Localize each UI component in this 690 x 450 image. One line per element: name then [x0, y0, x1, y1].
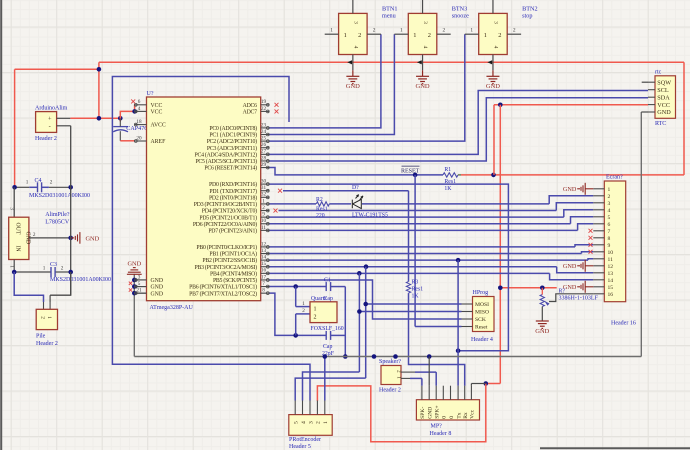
svg-text:Rx: Rx [463, 412, 469, 419]
svg-text:23: 23 [261, 122, 267, 128]
svg-text:32: 32 [261, 192, 267, 198]
svg-text:1: 1 [314, 307, 317, 313]
svg-text:9: 9 [262, 212, 265, 218]
svg-text:Header 5: Header 5 [289, 444, 311, 450]
svg-text:2: 2 [316, 421, 322, 424]
svg-text:PB7 (PCINT7/XTAL2/TOSC2): PB7 (PCINT7/XTAL2/TOSC2) [189, 290, 257, 297]
svg-text:2: 2 [61, 265, 64, 271]
svg-text:6: 6 [138, 99, 141, 105]
svg-text:GND: GND [127, 261, 141, 268]
svg-text:4: 4 [492, 46, 498, 49]
svg-text:PB2 (PCINT2/SS/OC1B): PB2 (PCINT2/SS/OC1B) [202, 257, 257, 264]
svg-text:1: 1 [413, 32, 416, 39]
svg-text:AVCC: AVCC [151, 123, 166, 129]
svg-text:Vcc: Vcc [470, 409, 476, 419]
svg-text:RESET: RESET [401, 168, 420, 174]
svg-text:VCC: VCC [151, 103, 163, 109]
svg-text:PD6 (PCINT22/OC0A/AIN0): PD6 (PCINT22/OC0A/AIN0) [193, 221, 257, 228]
svg-text:D?: D? [352, 185, 359, 191]
svg-text:2: 2 [428, 32, 431, 39]
svg-text:4: 4 [138, 106, 141, 112]
svg-text:L7805CV: L7805CV [45, 219, 70, 225]
svg-text:16: 16 [261, 268, 267, 274]
svg-text:2: 2 [358, 32, 361, 39]
svg-text:AREF: AREF [151, 139, 167, 145]
svg-text:rtc: rtc [655, 69, 662, 75]
svg-text:1: 1 [46, 316, 52, 319]
svg-text:SQW: SQW [657, 79, 671, 86]
svg-text:2: 2 [442, 27, 445, 33]
svg-text:1: 1 [608, 187, 611, 193]
svg-text:1: 1 [262, 198, 265, 204]
svg-text:IN: IN [14, 246, 20, 253]
svg-text:Pile: Pile [36, 334, 46, 340]
svg-text:PC6 (RESET/PCINT14): PC6 (RESET/PCINT14) [204, 165, 257, 172]
svg-text:24: 24 [261, 129, 267, 135]
svg-text:-: - [49, 124, 51, 131]
svg-text:2: 2 [373, 27, 376, 33]
svg-text:ADC7: ADC7 [243, 110, 257, 116]
svg-text:Header 2: Header 2 [35, 136, 57, 142]
svg-text:9: 9 [608, 243, 611, 249]
svg-text:GND: GND [563, 186, 577, 193]
svg-text:1: 1 [8, 265, 14, 268]
svg-text:0: 0 [442, 416, 448, 419]
svg-text:7: 7 [262, 281, 265, 287]
svg-text:Reset: Reset [475, 325, 488, 331]
svg-text:BTN2: BTN2 [522, 6, 537, 13]
svg-text:Res1: Res1 [412, 287, 424, 293]
svg-text:2: 2 [314, 315, 317, 321]
svg-text:menu: menu [382, 13, 396, 20]
svg-text:MP?: MP? [431, 423, 443, 429]
svg-text:U?: U? [147, 91, 154, 97]
svg-text:C4: C4 [35, 178, 42, 184]
svg-text:SCL: SCL [657, 87, 669, 94]
svg-text:GND: GND [563, 284, 577, 291]
svg-text:5: 5 [294, 421, 300, 424]
svg-text:ATmega328P-AU: ATmega328P-AU [150, 305, 194, 311]
svg-text:5: 5 [138, 281, 141, 287]
svg-text:PD2 (INT0/PCINT18): PD2 (INT0/PCINT18) [209, 194, 257, 201]
svg-text:ADC6: ADC6 [243, 103, 257, 109]
svg-text:GND: GND [151, 291, 164, 297]
svg-text:PRotEncoder: PRotEncoder [289, 437, 321, 443]
svg-text:PB1 (PCINT1/OC1A): PB1 (PCINT1/OC1A) [209, 251, 257, 258]
svg-text:12: 12 [608, 264, 614, 270]
svg-text:stop: stop [522, 13, 532, 20]
svg-text:PC4 (ADC4/SDA/PCINT12): PC4 (ADC4/SDA/PCINT12) [194, 151, 257, 158]
svg-text:MKS2D031001A00KI00: MKS2D031001A00KI00 [50, 277, 111, 283]
svg-text:RTC: RTC [655, 121, 666, 127]
svg-text:SCK: SCK [475, 317, 486, 323]
svg-text:3: 3 [608, 201, 611, 207]
svg-text:GND: GND [416, 83, 430, 90]
svg-text:SPK-: SPK- [420, 407, 426, 419]
svg-text:PD1 (TXD/PCINT17): PD1 (TXD/PCINT17) [209, 188, 257, 195]
svg-text:13: 13 [261, 248, 267, 254]
svg-text:3: 3 [492, 21, 498, 24]
svg-text:3: 3 [8, 207, 14, 210]
svg-text:1: 1 [302, 301, 305, 307]
svg-text:PD7 (PCINT23/AIN1): PD7 (PCINT23/AIN1) [208, 227, 257, 234]
svg-text:SDA: SDA [657, 94, 670, 101]
svg-text:1: 1 [330, 27, 333, 33]
svg-text:4: 4 [422, 46, 428, 49]
svg-text:2: 2 [498, 32, 501, 39]
svg-text:MKS2D031001A00KI00: MKS2D031001A00KI00 [29, 193, 90, 199]
svg-text:HProg: HProg [473, 290, 489, 296]
svg-text:BTN1: BTN1 [382, 6, 397, 13]
svg-text:GND: GND [657, 109, 671, 116]
svg-text:3: 3 [422, 21, 428, 24]
svg-text:PB5 (SCK/PCINT5): PB5 (SCK/PCINT5) [213, 277, 257, 284]
svg-text:2: 2 [39, 316, 45, 319]
svg-text:10: 10 [261, 218, 267, 224]
svg-text:GND: GND [151, 285, 164, 291]
svg-text:VCC: VCC [657, 102, 670, 109]
svg-text:3: 3 [138, 274, 141, 280]
svg-text:AlimPile?: AlimPile? [45, 212, 70, 218]
svg-text:MISO: MISO [475, 310, 489, 316]
svg-text:BTN3: BTN3 [452, 6, 467, 13]
svg-text:1: 1 [43, 265, 46, 271]
svg-text:PB4 (PCINT4/MISO): PB4 (PCINT4/MISO) [210, 270, 257, 277]
svg-text:R?: R? [559, 289, 566, 295]
svg-text:1: 1 [400, 27, 403, 33]
svg-text:FOXSLF_160: FOXSLF_160 [311, 326, 344, 332]
svg-text:19: 19 [261, 99, 267, 105]
svg-text:10: 10 [608, 250, 614, 256]
svg-text:R3: R3 [412, 280, 419, 286]
svg-text:PD4 (PCINT20/XCK/T0): PD4 (PCINT20/XCK/T0) [202, 208, 257, 215]
svg-text:GND: GND [486, 83, 500, 90]
svg-text:2: 2 [396, 370, 402, 373]
svg-text:8: 8 [262, 288, 265, 294]
svg-text:Header 4: Header 4 [471, 337, 493, 343]
svg-text:27: 27 [261, 149, 267, 155]
svg-text:18: 18 [136, 119, 142, 125]
svg-text:1K: 1K [444, 186, 452, 192]
svg-text:220: 220 [316, 213, 325, 219]
svg-text:2: 2 [262, 205, 265, 211]
svg-text:4: 4 [608, 208, 611, 214]
svg-text:ArduinoAlim: ArduinoAlim [35, 105, 68, 111]
svg-text:3: 3 [308, 421, 314, 424]
svg-text:1: 1 [484, 32, 487, 39]
svg-text:Header 2: Header 2 [379, 388, 401, 394]
svg-text:MOSI: MOSI [475, 302, 489, 308]
svg-text:C3: C3 [50, 262, 57, 268]
svg-text:PC1 (ADC1/PCINT9): PC1 (ADC1/PCINT9) [209, 132, 257, 139]
svg-text:26: 26 [261, 142, 267, 148]
svg-text:GND: GND [151, 278, 164, 284]
svg-text:6: 6 [608, 222, 611, 228]
svg-text:PD5 (PCINT21/OC0B/T1): PD5 (PCINT21/OC0B/T1) [199, 214, 257, 221]
svg-text:2: 2 [302, 308, 305, 314]
svg-text:GND: GND [563, 263, 577, 270]
svg-text:17: 17 [261, 274, 267, 280]
svg-text:25: 25 [261, 136, 267, 142]
svg-text:5: 5 [608, 215, 611, 221]
svg-text:3386H-1-103LF: 3386H-1-103LF [559, 295, 599, 301]
svg-text:11: 11 [261, 225, 266, 231]
svg-text:13: 13 [608, 271, 614, 277]
svg-text:Cap: Cap [323, 344, 332, 350]
svg-text:GND: GND [428, 407, 434, 419]
svg-text:snooze: snooze [452, 13, 469, 20]
svg-text:GND: GND [86, 235, 100, 242]
svg-text:12: 12 [261, 241, 267, 247]
svg-text:29: 29 [261, 162, 267, 168]
svg-text:PC3 (ADC3/PCINT11): PC3 (ADC3/PCINT11) [207, 145, 257, 152]
svg-text:GND: GND [535, 328, 549, 335]
svg-text:Header 2: Header 2 [36, 341, 58, 347]
svg-text:PD3 (PCINT19/OC2B/INT1): PD3 (PCINT19/OC2B/INT1) [194, 201, 257, 208]
svg-text:15: 15 [608, 285, 614, 291]
svg-text:16: 16 [608, 292, 614, 298]
svg-text:Tx: Tx [456, 412, 462, 418]
svg-text:2: 2 [513, 27, 516, 33]
svg-text:1: 1 [26, 179, 29, 185]
svg-text:Res1: Res1 [316, 207, 328, 213]
svg-text:+: + [48, 116, 52, 123]
svg-text:Header 16: Header 16 [611, 320, 636, 326]
svg-text:R1: R1 [444, 167, 451, 173]
svg-text:VCC: VCC [151, 110, 163, 116]
svg-text:14: 14 [261, 255, 267, 261]
svg-text:Header 8: Header 8 [430, 431, 452, 437]
svg-text:28: 28 [261, 155, 267, 161]
svg-text:4: 4 [301, 421, 307, 424]
svg-text:Ecran?: Ecran? [606, 175, 623, 181]
svg-text:1: 1 [344, 32, 347, 39]
svg-text:PB3 (PCINT3/OC2A/MOSI): PB3 (PCINT3/OC2A/MOSI) [194, 264, 257, 271]
svg-text:1: 1 [396, 376, 402, 379]
svg-text:LTW-C191TS5: LTW-C191TS5 [352, 213, 388, 219]
svg-text:30: 30 [261, 179, 267, 185]
svg-text:31: 31 [261, 185, 267, 191]
svg-text:C1: C1 [324, 278, 331, 284]
svg-text:PD0 (RXD/PCINT16): PD0 (RXD/PCINT16) [209, 181, 257, 188]
svg-text:PC5 (ADC5/SCL/PCINT13): PC5 (ADC5/SCL/PCINT13) [195, 158, 257, 165]
svg-text:3: 3 [352, 21, 358, 24]
svg-text:Speaker?: Speaker? [379, 359, 401, 365]
svg-text:11: 11 [608, 257, 614, 263]
svg-text:1K: 1K [412, 293, 420, 299]
svg-text:2: 2 [50, 179, 53, 185]
svg-text:14: 14 [608, 278, 614, 284]
svg-text:15: 15 [261, 261, 267, 267]
svg-text:R2: R2 [316, 197, 323, 203]
svg-text:7: 7 [608, 229, 611, 235]
svg-text:8: 8 [608, 236, 611, 242]
svg-text:20: 20 [136, 135, 142, 141]
svg-text:PB6 (PCINT6/XTAL1/TOSC1): PB6 (PCINT6/XTAL1/TOSC1) [189, 284, 257, 291]
svg-text:1: 1 [323, 421, 329, 424]
svg-text:0: 0 [449, 416, 455, 419]
svg-text:PC2 (ADC2/PCINT10): PC2 (ADC2/PCINT10) [207, 138, 257, 145]
svg-text:2: 2 [608, 194, 611, 200]
svg-text:GND: GND [346, 83, 360, 90]
svg-text:PB0 (PCINT0/CLKO/ICP1): PB0 (PCINT0/CLKO/ICP1) [196, 244, 257, 251]
svg-text:PC0 (ADC0/PCINT8): PC0 (ADC0/PCINT8) [209, 125, 257, 132]
svg-text:1: 1 [470, 27, 473, 33]
svg-text:22: 22 [261, 106, 267, 112]
svg-text:4: 4 [352, 46, 358, 49]
svg-text:OUT: OUT [14, 223, 20, 235]
svg-text:21: 21 [136, 288, 142, 294]
svg-text:SPK+: SPK+ [435, 405, 441, 418]
